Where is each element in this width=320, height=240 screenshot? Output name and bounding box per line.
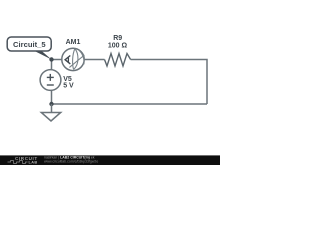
node junction dot at ground net bbox=[49, 102, 53, 106]
wire: node down to V5 top bbox=[51, 60, 53, 70]
svg-text:www.circuitlab.com/c/b3kp33fgw: www.circuitlab.com/c/b3kp33fgw2e bbox=[44, 159, 98, 163]
wire: V5 bottom to ground node bbox=[51, 90, 53, 104]
node A junction dot (net Circuit_5) bbox=[49, 57, 53, 61]
svg-text:LAB: LAB bbox=[29, 161, 38, 165]
ammeter AM1 bbox=[62, 48, 85, 70]
wire: bottom return to ground node bbox=[52, 103, 208, 105]
svg-text:AM1: AM1 bbox=[66, 39, 81, 46]
footer logo CircuitLab bbox=[8, 156, 38, 165]
resistor R9 bbox=[105, 54, 131, 67]
footer bar bbox=[0, 155, 220, 165]
svg-text:5 V: 5 V bbox=[63, 83, 74, 90]
voltage source V5 bbox=[40, 70, 61, 91]
ground bbox=[41, 104, 60, 121]
wire: ammeter right to resistor left lead bbox=[84, 59, 104, 61]
svg-text:Circuit_5: Circuit_5 bbox=[13, 40, 46, 49]
svg-text:100 Ω: 100 Ω bbox=[108, 43, 128, 50]
wire: node to ammeter left bbox=[52, 59, 62, 61]
wire: resistor right lead to top-right corner and down bbox=[131, 60, 207, 105]
net label flag Circuit_5 bbox=[7, 37, 51, 60]
svg-text:R9: R9 bbox=[113, 35, 122, 42]
